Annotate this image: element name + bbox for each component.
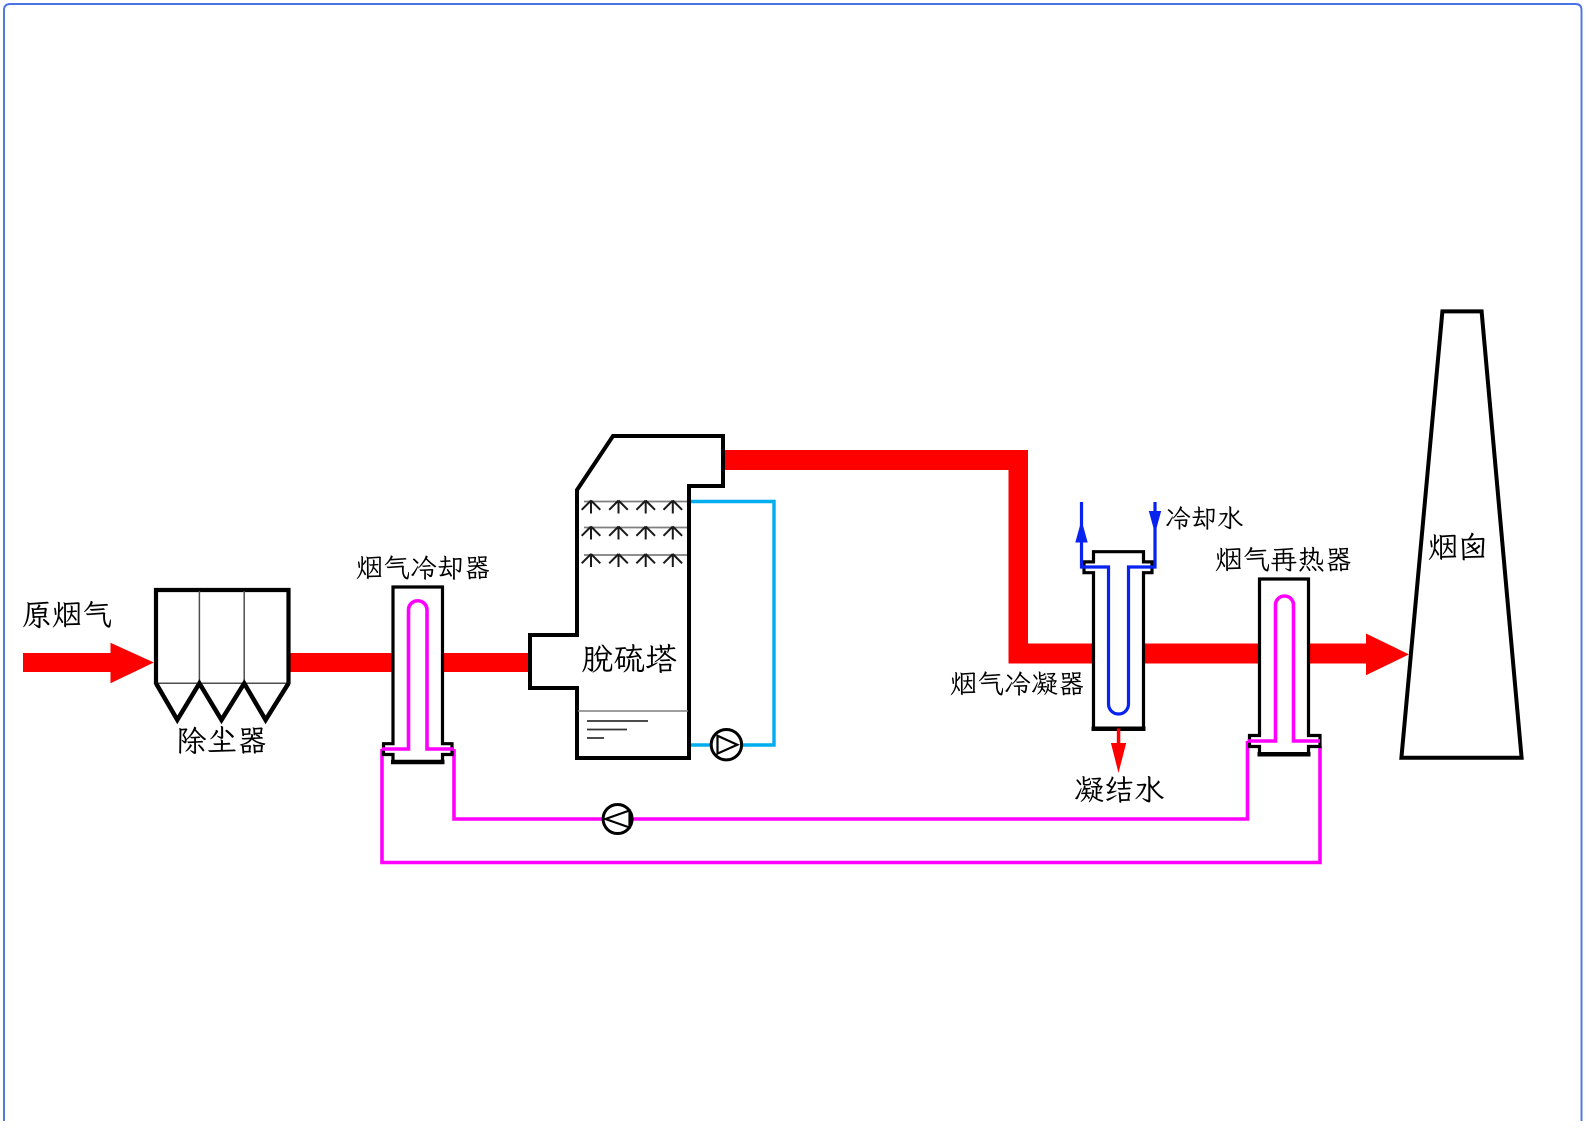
label: dust collector 除尘器 (179, 726, 265, 754)
dust collector internal dividers (156, 591, 289, 683)
cyan slurry recirculation loop (689, 502, 774, 746)
label: cooling water 冷却水 (1166, 506, 1243, 530)
label: desulfurization tower 脱硫塔 (582, 644, 676, 673)
label: flue gas reheater 烟气再热器 (1216, 547, 1351, 572)
condensate outlet red arrow (1111, 729, 1126, 774)
tower recirculation pump (711, 730, 741, 760)
dust collector body (ESP) (156, 590, 289, 684)
magenta hot-water loop piping (382, 741, 1320, 863)
label: flue gas condenser 烟气冷凝器 (951, 671, 1083, 695)
label: raw flue gas 原烟气 (23, 601, 111, 628)
red pipe: dust collector to tower inlet (288, 653, 532, 672)
liquid level lines (578, 710, 688, 712)
red pipe: tower top outlet duct (723, 450, 1028, 664)
raw flue gas inlet arrow (23, 643, 154, 684)
reheater magenta U-tube (1248, 596, 1321, 741)
label: chimney 烟囱 (1429, 533, 1485, 561)
spray headers with nozzles (582, 501, 687, 568)
chimney (1401, 311, 1521, 757)
flue gas reheater body (1250, 579, 1321, 754)
cooler magenta U-tube (382, 601, 454, 749)
cooling water inlet arrowhead (down) (1149, 511, 1161, 534)
red pipe: condenser to reheater to chimney with arrowhead (1009, 634, 1410, 676)
desulfurization tower body (530, 436, 723, 758)
flue gas condenser body (1084, 552, 1152, 729)
cooling water outlet arrowhead (up) (1075, 520, 1087, 543)
hot water circulation pump (603, 805, 632, 834)
dust collector hoppers (156, 683, 289, 720)
label: condensate water 凝结水 (1075, 776, 1164, 803)
label: flue gas cooler 烟气冷却器 (357, 555, 489, 580)
condenser blue U-tube (1082, 502, 1156, 714)
flue gas cooler body (384, 587, 453, 762)
